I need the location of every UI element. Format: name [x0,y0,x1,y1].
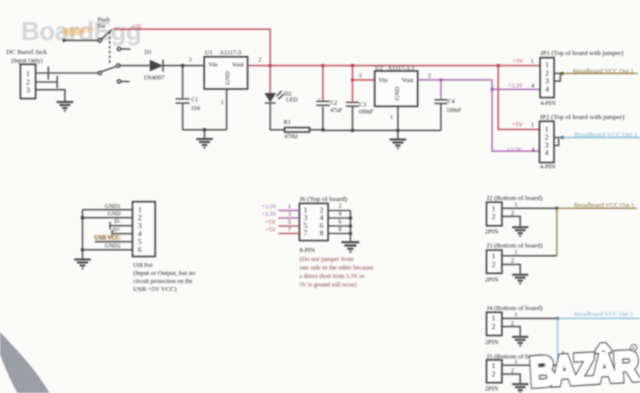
wire ground rail C1/U1 [183,129,227,131]
net +3.3V U2 Vout [418,79,492,81]
svg-text:a direct short from 3.3V or: a direct short from 3.3V or [300,273,365,280]
pin4 stub tick [111,230,113,237]
svg-text:C3: C3 [359,102,366,108]
svg-text:USB +5V VCC): USB +5V VCC) [133,286,176,293]
svg-text:5: 5 [288,220,291,226]
svg-text:4: 4 [531,84,534,90]
svg-text:1: 1 [545,60,549,69]
wire J2 pin1 [502,207,557,209]
connector J0 DC Barrel Jack [6,49,47,99]
wire J6 pin7 [278,233,299,235]
resistor R1 [284,120,310,140]
note text J6 warning [300,256,374,289]
wire J6 pin2 to gnd bus [328,210,350,212]
wire +5V branch to U2 Vin [352,66,354,102]
svg-text:GND1: GND1 [105,204,121,210]
svg-text:2: 2 [492,322,496,331]
net Breadboard VCC Out 1 wire [562,72,637,74]
svg-text:Vin: Vin [209,62,219,69]
wire J6 pin1 [278,210,299,212]
svg-text:GND: GND [394,86,401,100]
capacitor C4 [434,80,462,130]
svg-text:1: 1 [531,123,534,129]
svg-text:+3.3V: +3.3V [262,205,278,211]
ground (USB) [74,260,91,269]
wire +5V drop to JP2 [498,66,539,130]
net Breadboard VCC Out 1 wire (bottom) [557,207,637,209]
svg-text:7: 7 [288,228,291,234]
svg-text:Vout: Vout [402,77,414,84]
svg-text:8: 8 [339,227,342,233]
wire J3 pin1 [502,255,557,257]
svg-text:A1117-5: A1117-5 [220,50,242,57]
note text USB Port [133,263,195,293]
wire J6 pin3 [278,217,299,219]
svg-text:DC Barrel Jack: DC Barrel Jack [6,49,47,56]
junction +5V / U2 branch [351,64,355,68]
ground (J5) [512,384,528,393]
wire J6 pin4 [328,217,350,219]
svg-text:JP2 (Top of board with jumper): JP2 (Top of board with jumper) [540,114,625,121]
wire J4 pin2 to ground [502,327,520,336]
svg-text:+3.3V: +3.3V [507,148,523,154]
connector J6 [299,196,347,254]
svg-text:7: 7 [304,229,308,238]
svg-text:+5V: +5V [265,220,276,226]
ground (U2) [390,130,407,148]
svg-text:1: 1 [515,250,518,256]
wire JP2 pin2 jumper [554,137,563,139]
svg-text:Sw: Sw [98,23,107,30]
junction JP2 out [561,136,564,139]
svg-text:3: 3 [189,58,192,64]
junction JP1 out [561,72,564,75]
svg-text:C4: C4 [448,99,455,105]
svg-text:A1117-3.3: A1117-3.3 [388,65,415,72]
junction pin2/gnd bus [81,216,85,220]
wire VCC Out 2 vertical to J5 [557,318,559,365]
wire J6 gnd bus vertical [349,211,351,242]
switch bottom unused throw [117,80,129,83]
junction ground rail [203,128,207,132]
svg-text:one side to the other because: one side to the other because [300,266,374,272]
svg-text:GND2: GND2 [105,244,121,250]
switch top unused throw [117,47,130,50]
jack pin2 end tick [56,76,58,88]
svg-text:2: 2 [511,368,514,374]
switch bottom pole common contact [98,71,101,74]
svg-text:1: 1 [531,59,534,65]
switch mechanical link (dashed) [109,32,111,64]
svg-text:2: 2 [492,369,496,378]
svg-text:2: 2 [511,258,514,264]
wire R1 to C2 node [310,129,323,131]
svg-text:GND: GND [225,71,232,85]
svg-text:8-PIN: 8-PIN [300,247,316,254]
junction +3.3V / C4 [439,78,442,81]
wire rail to LED [269,66,271,93]
svg-text:1: 1 [221,100,224,106]
svg-text:8: 8 [320,229,324,238]
junction pin6/gnd bus [81,248,85,252]
svg-text:5V to ground will occur): 5V to ground will occur) [300,282,357,289]
svg-text:2: 2 [428,74,431,80]
junction +3.3V JP1 [490,88,493,91]
svg-text:D-: D- [114,219,120,225]
junction +5V / D2 [268,64,272,68]
wire J6 pin6 [328,225,350,227]
wire J1 pin3 stub [110,225,133,227]
pin3 stub tick [109,222,111,230]
capacitor C2 [316,66,343,130]
switch bottom pole arm [101,66,116,71]
wire J1 pin5 [95,241,133,243]
ground (J2) [512,227,528,236]
svg-text:1: 1 [515,359,518,365]
wire jack pin3 to ground [36,90,65,101]
svg-text:100nF: 100nF [446,108,462,114]
svg-text:+5V: +5V [513,59,524,65]
wire U1 GND pin [226,89,228,130]
svg-text:Breadboard VCC Out 1: Breadboard VCC Out 1 [573,68,634,75]
svg-text:6: 6 [339,220,342,226]
net label USB VCC (highlighted) [94,234,122,241]
LED D2 [264,91,298,104]
switch top pole contact [98,39,101,42]
svg-text:2PIN: 2PIN [485,229,499,236]
svg-text:47uF: 47uF [330,108,343,114]
svg-text:USB Port: USB Port [133,263,152,269]
wire J5 pin2 to ground [502,374,520,383]
svg-text:1: 1 [26,69,30,78]
svg-text:2: 2 [492,212,496,221]
watermark BoardEgg [21,16,141,46]
svg-text:C1: C1 [191,98,198,104]
svg-text:2: 2 [259,58,262,64]
junction J6 pin8 [349,232,353,236]
svg-text:2PIN: 2PIN [485,277,499,284]
svg-text:D+: D+ [113,227,121,233]
svg-text:+3.3V: +3.3V [262,212,278,218]
junction node D1/C1 [181,64,185,68]
svg-text:3: 3 [288,212,291,218]
svg-text:+5V: +5V [266,228,277,234]
svg-text:+5V: +5V [512,123,523,129]
ground (J6) [341,242,359,252]
svg-text:1: 1 [515,313,518,319]
junction J6 pin6 [349,224,353,228]
watermark BAZAR logo [529,343,640,393]
svg-text:3: 3 [26,85,30,94]
net +5V main rail U1 Vout to JP1 [248,65,540,67]
svg-text:JP1 (Top of board with jumper): JP1 (Top of board with jumper) [540,50,623,57]
svg-text:+: + [318,96,321,101]
wire J2 pin2 to ground [502,216,520,226]
wire LED to R1 [270,103,284,130]
op-amp U2 regulator A1117-3.3 [375,65,418,107]
connector J3 [485,243,543,284]
switch bottom throw contact [117,64,120,67]
ground (J3) [512,275,528,284]
svg-text:4-PIN: 4-PIN [540,164,556,171]
junction dot left stub [62,39,65,42]
junction R1/C2 ground rail [321,128,325,132]
svg-text:Breadboard VCC Out 1: Breadboard VCC Out 1 [574,202,634,209]
wire +3.3V to JP1 pin4 [492,88,540,90]
svg-text:USB VCC: USB VCC [95,236,120,242]
ground (DC jack) [57,102,74,111]
svg-text:Vin: Vin [379,77,389,84]
svg-text:LED: LED [286,98,298,104]
wire jack pin1 to switch common [36,72,99,74]
capacitor C3 [346,102,374,130]
junction C3/rail [351,129,355,133]
svg-text:(Do not jumper from: (Do not jumper from [300,256,354,263]
wire switch to D1 [120,65,150,67]
svg-text:3: 3 [359,74,362,80]
svg-text:1: 1 [288,205,291,211]
svg-text:2: 2 [511,321,514,327]
junction J6 pin4 [349,216,353,220]
op-amp U1 regulator A1117-5 [204,50,247,90]
wire JP1 pin2 jumper [554,72,562,74]
svg-text:J2 (Bottom of board): J2 (Bottom of board) [487,195,543,202]
wire J1 pin2 [83,217,133,219]
wire J6 pin5 [278,225,299,227]
junction +5V / JP2 branch [496,64,500,68]
svg-text:U2: U2 [375,65,383,72]
switch SW1 label [98,17,111,31]
svg-text:4: 4 [532,148,535,154]
wire J1 pin1 [83,209,133,211]
svg-text:C2: C2 [330,100,337,106]
ground (J4) [512,337,528,346]
wire JP2 pin3 jumper [554,139,559,146]
wire J5 pin1 [502,364,558,366]
junction U2 GND/rail [396,129,400,133]
junction +5V / C2 [321,64,325,68]
net Breadboard VCC Out 2 wire (bottom) [558,317,640,319]
svg-text:J6 (Top of board): J6 (Top of board) [300,196,348,203]
junction J4 out [556,317,559,320]
svg-text:+5V: +5V [132,25,143,31]
svg-text:2: 2 [339,204,342,210]
connector J4 [485,305,543,346]
connector J1 USB port [133,202,156,257]
svg-text:1N4007: 1N4007 [144,75,165,81]
diode D1 [144,50,165,81]
connector JP1 [540,50,623,107]
junction J2 out [555,207,558,210]
svg-text:2: 2 [492,260,496,269]
svg-text:1: 1 [515,203,518,209]
svg-text:J3 (Bottom of board): J3 (Bottom of board) [487,243,543,250]
svg-text:Breadboard VCC Out 2: Breadboard VCC Out 2 [574,132,637,139]
wire U2 GND pin [397,106,399,130]
wire switch top throw stub left [64,39,99,41]
svg-text:4: 4 [545,84,549,93]
svg-text:4-PIN: 4-PIN [540,100,556,107]
svg-text:470Ω: 470Ω [284,134,298,140]
wire +3.3V drop to JP1/JP2 [492,80,539,151]
connector J5 [485,354,543,393]
svg-text:R1: R1 [284,120,291,126]
svg-text:4: 4 [339,212,342,218]
svg-text:1: 1 [390,115,393,121]
svg-text:BAZÂR: BAZÂR [529,343,640,393]
wire to U2 Vin [353,79,375,81]
capacitor C1 [176,66,200,130]
svg-text:100nF: 100nF [358,110,374,116]
svg-text:circuit protection on the: circuit protection on the [133,279,193,285]
switch top pole arm [101,30,112,40]
wire J4 pin1 [502,317,558,319]
svg-text:Breadboard VCC Out 2: Breadboard VCC Out 2 [574,311,633,318]
svg-text:(Input Only): (Input Only) [11,58,43,65]
ground (U1) [196,130,213,148]
svg-text:(Input or Output, but no: (Input or Output, but no [133,270,195,277]
svg-text:4: 4 [545,148,549,157]
svg-text:+3.3V: +3.3V [508,84,524,90]
junction U2 Vin branch [351,78,354,81]
wire J1 pin4 stub [112,233,133,235]
svg-text:2PIN: 2PIN [485,386,499,393]
svg-text:2PIN: 2PIN [485,339,499,346]
svg-text:J4 (Bottom of board): J4 (Bottom of board) [487,305,543,312]
connector JP2 [540,114,625,170]
svg-text:Vout: Vout [232,62,244,69]
connector J2 [485,195,543,236]
jack switch contact tick [47,67,49,80]
wire J1 pin6 [83,249,133,251]
net +5V top rail [114,29,271,65]
svg-text:GND: GND [108,211,122,217]
wire J3 pin2 to ground [502,264,520,273]
wire VCC Out 1 vertical to J3 [556,208,558,256]
wire J6 pin8 [328,233,350,235]
svg-text:U1: U1 [205,50,213,57]
wire J1 ground bus [82,210,84,259]
svg-text:D1: D1 [145,50,152,56]
wire ground rail 2 [323,129,441,131]
watermark gray swoosh [0,332,50,393]
net Breadboard VCC Out 2 wire [563,137,640,139]
wire D1 to U1 Vin [163,65,204,67]
wire jack pin2 stub [36,81,58,83]
wire JP1 pin3 jumper [554,75,560,82]
svg-text:6: 6 [138,245,142,254]
svg-text:104: 104 [191,106,200,112]
